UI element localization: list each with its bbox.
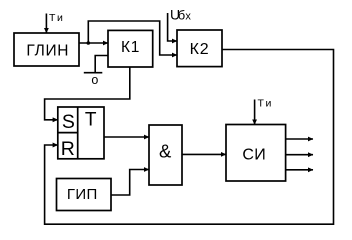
svg-text:К1: К1 xyxy=(121,39,140,56)
block ГИП (pulse generator) xyxy=(57,179,112,211)
svg-text:S: S xyxy=(62,111,75,133)
svg-text:К2: К2 xyxy=(190,41,210,58)
svg-text:ГИП: ГИП xyxy=(67,186,98,203)
block ГЛИН (ramp generator) xyxy=(14,33,79,66)
block К1 (comparator 1) xyxy=(108,30,153,67)
svg-text:&: & xyxy=(159,141,172,162)
trigger vertical divider xyxy=(77,107,79,159)
svg-text:R: R xyxy=(61,138,75,160)
svg-text:ГЛИН: ГЛИН xyxy=(26,43,69,60)
wire СИ output 1 xyxy=(286,138,313,140)
wire trigger output to & gate xyxy=(104,136,149,138)
wire К1 output down and around to S input xyxy=(45,67,130,120)
wire СИ output 2 xyxy=(286,154,313,156)
svg-text:T: T xyxy=(85,110,97,131)
wire & output to СИ xyxy=(182,153,226,155)
svg-text:Ти: Ти xyxy=(258,98,274,110)
wire К2 output feedback loop to R input xyxy=(45,50,334,225)
wire ГИП output to & gate second input xyxy=(111,170,149,196)
svg-text:СИ: СИ xyxy=(242,147,266,164)
svg-text:Ти: Ти xyxy=(49,12,65,24)
wire Ти input arrow into СИ xyxy=(254,100,256,125)
wire Ти input arrow into ГЛИН xyxy=(45,14,47,34)
wire ГЛИН output to К1 xyxy=(79,42,108,44)
wire Uвх input into К2 xyxy=(168,13,177,41)
reference level symbol о at К1 input xyxy=(95,56,108,73)
wire bypass from junction over К1 into К2 xyxy=(88,21,177,55)
block СИ (pulse counter) xyxy=(226,125,286,182)
block & (AND gate) xyxy=(149,125,182,185)
wire СИ output 3 xyxy=(286,169,313,171)
trigger horizontal divider xyxy=(58,132,78,134)
block trigger T (S/R flip-flop) xyxy=(58,107,104,159)
block К2 (comparator 2) xyxy=(177,30,222,67)
svg-text:о: о xyxy=(91,73,98,87)
svg-text:б: б xyxy=(178,8,185,23)
node junction on ГЛИН output xyxy=(87,41,91,45)
svg-text:х: х xyxy=(185,11,191,23)
